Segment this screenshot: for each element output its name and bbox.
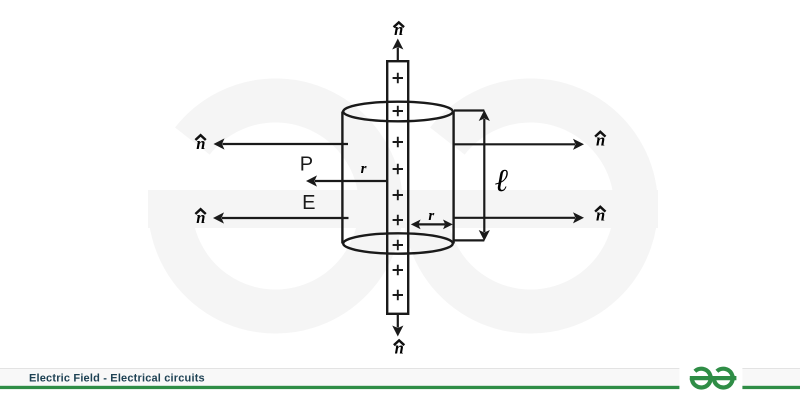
watermark right G: [425, 100, 636, 311]
left bottom normal arrow: [222, 217, 349, 219]
charged rod strip: [387, 61, 408, 314]
svg-text:n: n: [596, 206, 605, 225]
right bottom n-hat label: [595, 207, 605, 212]
svg-text:n: n: [395, 338, 404, 357]
svg-text:ℓ: ℓ: [495, 162, 509, 198]
footer logo left G: [692, 369, 711, 388]
left top n-hat label: [195, 135, 205, 140]
bottom normal arrow: [397, 315, 399, 328]
svg-text:E: E: [302, 192, 315, 214]
right top normal arrow: [454, 143, 575, 145]
gaussian cylinder top ellipse: [343, 102, 453, 122]
length dimension line: [483, 119, 485, 232]
plus charges: [393, 73, 403, 300]
svg-text:r: r: [361, 161, 367, 177]
footer logo bar: [690, 376, 737, 380]
bottom n-hat label: [394, 340, 404, 345]
top normal arrow: [397, 48, 399, 61]
svg-text:n: n: [394, 20, 403, 39]
left top normal arrow: [223, 143, 349, 145]
svg-text:n: n: [196, 134, 205, 153]
svg-text:n: n: [596, 131, 605, 150]
svg-text:r: r: [428, 208, 434, 224]
E field arrow at P: [315, 180, 386, 182]
radius dimension arrow: [418, 223, 445, 225]
gaussian cylinder bottom ellipse: [343, 233, 453, 253]
svg-text:Electric Field - Electrical ci: Electric Field - Electrical circuits: [29, 372, 205, 384]
right bottom normal arrow: [454, 217, 575, 219]
right top n-hat label: [595, 132, 605, 137]
cylinder left wall: [341, 112, 343, 244]
top n-hat label: [394, 22, 404, 27]
length dimension connector top: [454, 109, 484, 111]
cylinder right wall: [452, 112, 454, 244]
svg-text:n: n: [196, 208, 205, 227]
watermark bar: [148, 190, 658, 228]
svg-text:P: P: [300, 154, 313, 176]
left bottom n-hat label: [195, 209, 205, 214]
footer logo right G: [714, 369, 733, 388]
length dimension connector bottom: [454, 239, 484, 241]
footer band right: [742, 368, 800, 369]
footer band left: [0, 368, 679, 369]
watermark left G: [170, 100, 381, 311]
